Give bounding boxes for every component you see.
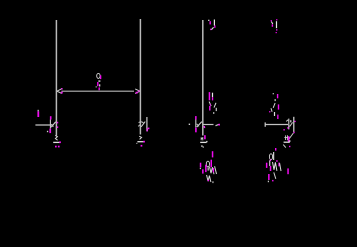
label dW1 (caption under circuit 4) bbox=[266, 148, 289, 182]
ground (below M1) bbox=[53, 135, 61, 147]
transistor M2 (MOSFET on wire B, gate at right) bbox=[138, 117, 149, 131]
wire A (left vertical conductor) bbox=[55, 20, 57, 136]
transistor M4 (MOSFET of circuit 4, gate lead from left) bbox=[265, 117, 296, 133]
transistor M1 (MOSFET on wire A, gate at left) bbox=[35, 116, 58, 133]
wire B (second vertical conductor) bbox=[139, 19, 141, 135]
wire (output line right of M3 with arrowhead) bbox=[203, 124, 220, 126]
label s (source marks of M3) bbox=[201, 127, 206, 141]
ground (below M4) bbox=[283, 140, 290, 147]
label VI/2 (mid label beside wire C) bbox=[209, 92, 217, 114]
transistor M3 (MOSFET on wire C, gate at left) bbox=[189, 116, 205, 132]
label vI (top of circuit 4) bbox=[271, 19, 278, 33]
dimension arrow (spacing between wire A and wire B) bbox=[57, 88, 140, 94]
label VI/2 (mid label of circuit 4) bbox=[269, 93, 279, 119]
label i1 (current label left of M1 gate) bbox=[37, 110, 39, 117]
label dW (caption under circuit 3) bbox=[200, 151, 217, 183]
ground (below M3) bbox=[200, 141, 207, 148]
label g (gap distance) bbox=[96, 73, 102, 90]
label vI (top of wire C) bbox=[208, 20, 215, 31]
wire C (drain conductor of M3) bbox=[202, 20, 204, 136]
wire (source lead of M4 down to ground) bbox=[284, 133, 293, 142]
ground (below M2) bbox=[136, 136, 145, 146]
